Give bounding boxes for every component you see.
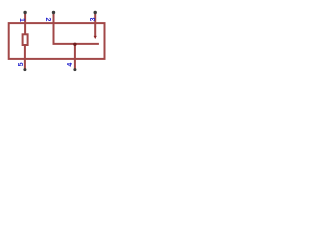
pin 3 wire <box>94 12 96 36</box>
terminal dot pin 3 <box>94 11 97 14</box>
wiper arrowhead <box>94 36 97 39</box>
svg-text:4: 4 <box>67 63 74 67</box>
pin 2 wire <box>54 12 99 44</box>
svg-text:5: 5 <box>18 62 25 66</box>
svg-text:1: 1 <box>18 18 25 22</box>
terminal dot pin 2 <box>52 11 55 14</box>
svg-text:2: 2 <box>44 17 51 21</box>
junction node <box>73 43 76 46</box>
terminal dot pin 1 <box>23 11 26 14</box>
component body box <box>9 23 105 59</box>
resistor element <box>23 34 28 45</box>
pin 4 wire <box>74 44 76 70</box>
pin 1 wire <box>24 12 26 34</box>
pin 5 wire <box>24 45 26 70</box>
terminal dot pin 4 <box>73 68 76 71</box>
svg-text:3: 3 <box>90 17 97 21</box>
terminal dot pin 5 <box>23 68 26 71</box>
